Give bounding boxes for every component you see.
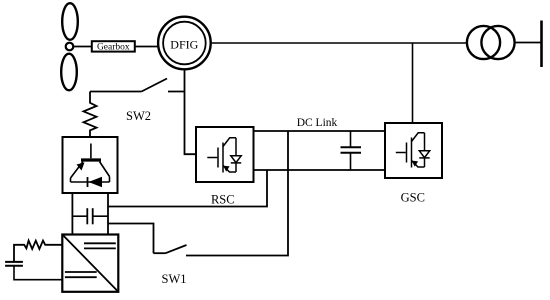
svg-text:SW1: SW1 xyxy=(162,272,187,286)
svg-text:DC Link: DC Link xyxy=(297,117,338,129)
svg-text:Gearbox: Gearbox xyxy=(97,43,130,53)
svg-text:DFIG: DFIG xyxy=(170,38,198,52)
svg-text:SW2: SW2 xyxy=(126,109,151,123)
svg-text:RSC: RSC xyxy=(211,193,235,207)
svg-text:GSC: GSC xyxy=(401,191,425,205)
